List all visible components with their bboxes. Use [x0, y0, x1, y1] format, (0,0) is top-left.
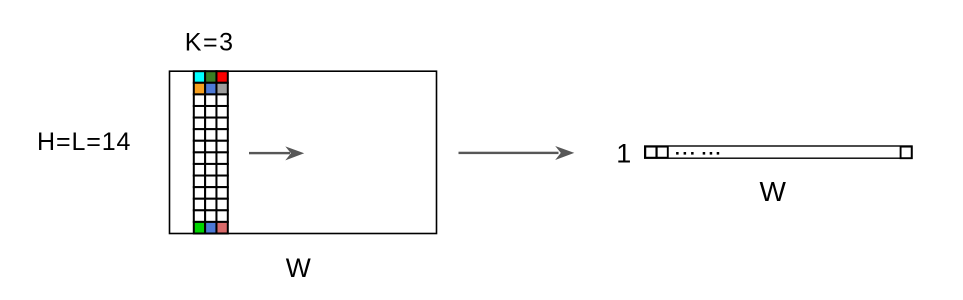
- svg-text:H=L=14: H=L=14: [37, 128, 131, 156]
- svg-text:K=3: K=3: [185, 29, 235, 57]
- svg-text:1: 1: [616, 138, 631, 168]
- svg-text:W: W: [759, 176, 786, 207]
- svg-text:W: W: [286, 253, 311, 283]
